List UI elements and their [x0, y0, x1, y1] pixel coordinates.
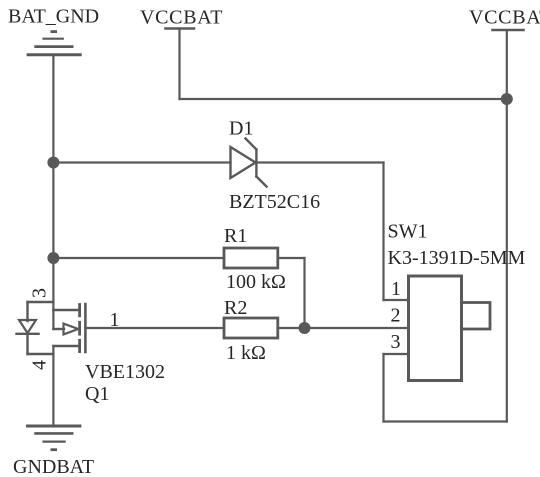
svg-text:VCCBAT: VCCBAT	[469, 7, 540, 29]
source stub pin 4	[53, 345, 79, 347]
wire R1 right	[278, 257, 305, 259]
wire top rail horizontal	[180, 98, 507, 100]
svg-text:GNDBAT: GNDBAT	[13, 456, 94, 477]
wire left rail lower (source to GNDBAT)	[52, 346, 54, 426]
node junction VCCBAT rail	[501, 93, 513, 105]
wire VCCBAT left vertical	[178, 30, 180, 100]
wire SW1 pin3 stub	[384, 353, 409, 355]
wire SW1 pin1 stub	[384, 299, 409, 301]
body diode triangle	[19, 320, 36, 333]
svg-text:VBE1302: VBE1302	[85, 361, 165, 383]
wire SW1 pin3 down	[382, 354, 384, 422]
transistor Q1 MOSFET	[17, 302, 86, 354]
resistor R2	[224, 318, 278, 338]
wire vertical to SW1 pin1	[382, 163, 384, 301]
wire left rail (BAT_GND down to MOSFET)	[52, 56, 54, 330]
node junction R1/R2	[299, 322, 311, 334]
svg-text:3: 3	[29, 288, 51, 298]
wire D1 anode	[53, 161, 230, 163]
wire VCCBAT right rail vertical	[506, 31, 508, 422]
wire gate to R2	[85, 327, 224, 329]
svg-text:BAT_GND: BAT_GND	[8, 6, 99, 28]
svg-text:1 kΩ: 1 kΩ	[226, 342, 266, 364]
svg-text:3: 3	[391, 331, 401, 353]
node junction at R1 row	[47, 252, 59, 264]
body diode branch top	[28, 301, 54, 303]
ground BAT_GND (earth symbol, inverted)	[27, 32, 82, 55]
svg-text:1: 1	[110, 309, 120, 331]
resistor R1	[224, 248, 278, 268]
gate bar	[84, 304, 87, 352]
svg-text:VCCBAT: VCCBAT	[140, 7, 223, 29]
wire R1 left	[53, 257, 224, 259]
body diode vertical top	[26, 302, 28, 321]
wire D1 cathode to SW1 pin1	[257, 161, 384, 163]
switch SW1 actuator box	[462, 303, 491, 330]
body arrow head	[64, 324, 79, 335]
switch SW1 body box	[409, 276, 462, 381]
power symbol VCCBAT right (bar)	[493, 29, 524, 32]
wire bottom rail	[384, 420, 507, 422]
svg-text:SW1: SW1	[388, 221, 428, 243]
svg-text:R2: R2	[224, 297, 247, 319]
svg-text:2: 2	[391, 305, 401, 327]
channel segment middle	[78, 322, 81, 334]
body diode bar	[17, 333, 39, 335]
svg-text:K3-1391D-5MM: K3-1391D-5MM	[388, 247, 526, 269]
wire R2 right to SW1 pin2	[278, 327, 409, 329]
body diode branch bottom	[28, 353, 54, 355]
channel segment bottom	[78, 340, 81, 351]
diode D1 (zener BZT52C16)	[231, 139, 267, 187]
body arrow stub	[53, 328, 64, 330]
node junction at D1 row	[47, 157, 59, 169]
ground GNDBAT (earth symbol)	[26, 426, 81, 450]
svg-text:BZT52C16: BZT52C16	[229, 191, 320, 213]
svg-text:1: 1	[391, 278, 401, 300]
svg-text:4: 4	[29, 360, 51, 370]
wire R1 to R2 vertical	[303, 258, 305, 328]
channel segment top	[78, 305, 81, 316]
pin 3 drain stub	[53, 309, 79, 311]
body diode vertical bottom	[26, 334, 28, 354]
svg-text:D1: D1	[229, 118, 253, 140]
svg-text:Q1: Q1	[85, 383, 109, 405]
svg-text:R1: R1	[224, 225, 247, 247]
svg-text:100 kΩ: 100 kΩ	[226, 271, 286, 293]
power symbol VCCBAT left (bar)	[166, 27, 195, 30]
